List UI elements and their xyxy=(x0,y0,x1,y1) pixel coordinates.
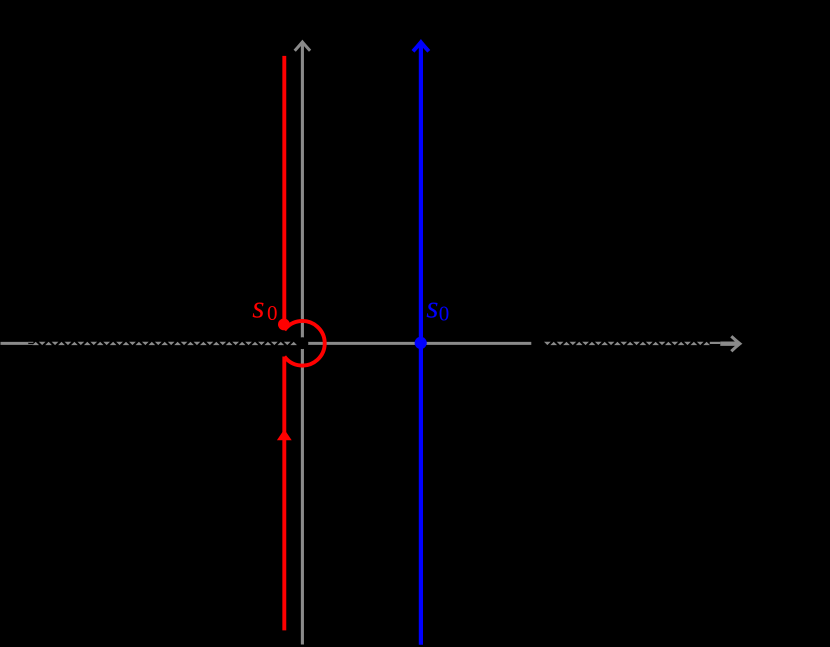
red circular arc around origin xyxy=(284,321,324,366)
svg-text:s: s xyxy=(426,289,438,324)
blue Bromwich contour vertical line xyxy=(419,45,423,645)
red deformed contour upper vertical segment xyxy=(282,56,286,327)
real axis right cut end fragment xyxy=(710,342,721,344)
red point s0 on contour xyxy=(278,319,290,331)
real axis middle plain segment xyxy=(297,342,531,345)
real axis left plain segment xyxy=(1,342,29,345)
real axis arrowhead xyxy=(731,336,740,351)
real axis left zigzag branch-cut hatching xyxy=(32,342,297,345)
blue contour arrowhead at top xyxy=(413,42,429,51)
imaginary axis shaft xyxy=(301,45,304,645)
imaginary axis arrowhead xyxy=(295,42,310,51)
real axis right plain segment to arrow xyxy=(720,342,738,346)
svg-text:0: 0 xyxy=(439,301,450,325)
svg-text:s: s xyxy=(252,289,264,324)
red direction arrowhead (upward triangle) xyxy=(277,429,292,440)
red deformed contour lower vertical segment xyxy=(282,357,286,631)
real axis left cut start fragment xyxy=(28,342,33,343)
blue point s0 on contour xyxy=(415,337,427,349)
real axis right zigzag branch-cut hatching xyxy=(544,342,710,345)
origin black dot (branch point, covers axes) xyxy=(297,337,309,349)
svg-text:0: 0 xyxy=(267,301,278,325)
